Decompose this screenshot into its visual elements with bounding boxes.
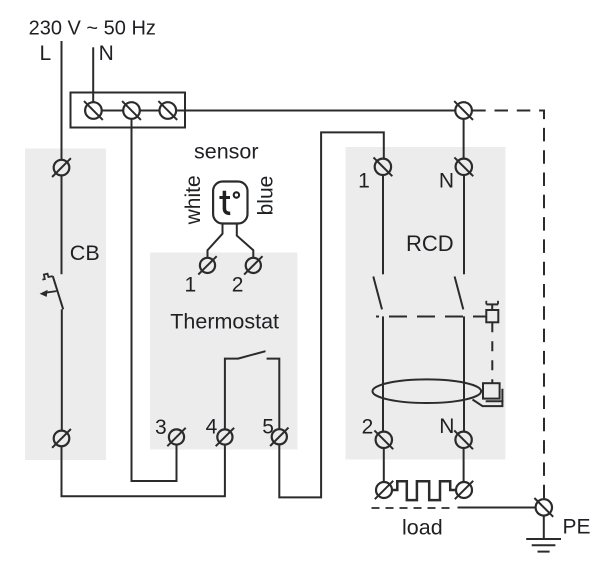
test button body [486, 310, 498, 322]
thermostat switch lever [238, 351, 266, 358]
svg-text:load: load [402, 516, 443, 540]
svg-text:1: 1 [358, 170, 370, 193]
terminal block screw 1 [84, 101, 103, 120]
svg-text:L: L [40, 42, 52, 65]
CB trip arrow [40, 290, 57, 297]
wire L drop [61, 41, 63, 160]
RCD feed terminal [454, 101, 473, 120]
terminal block screw 3 [158, 101, 177, 120]
svg-text:230 V ~ 50 Hz: 230 V ~ 50 Hz [29, 18, 156, 40]
svg-text:N: N [439, 415, 454, 438]
thermostat switch left wire [225, 359, 239, 430]
CB bottom terminal [52, 429, 71, 448]
RCD terminal N bottom [454, 430, 473, 449]
CB latch hook [42, 274, 52, 280]
wire from block to RCD feed [176, 110, 455, 112]
wire N distribution to thermostat terminal 3 [132, 119, 177, 481]
wire CB lower [61, 309, 63, 430]
wire CB to thermostat terminal 4 [62, 445, 225, 497]
svg-text:5: 5 [262, 415, 274, 438]
dashed test wire [491, 322, 493, 383]
sensor terminal 2 [244, 256, 262, 274]
svg-text:CB: CB [70, 241, 100, 265]
thermostat switch right wire [267, 359, 280, 430]
wire chassis to PE [458, 507, 536, 509]
sensor terminal 1 [198, 256, 216, 274]
load chassis dashed line [372, 507, 455, 509]
wire RCD 2 to load [383, 448, 385, 482]
svg-text:2: 2 [362, 416, 374, 439]
svg-text:Thermostat: Thermostat [170, 310, 279, 334]
RCD left pole contact lever [373, 277, 382, 310]
Thermostat module shaded box [150, 253, 298, 450]
terminal block body [71, 93, 186, 128]
svg-text:1: 1 [185, 273, 197, 296]
svg-text:2: 2 [232, 273, 244, 296]
RCD right pole lower wire [463, 316, 465, 431]
load terminal left [375, 481, 393, 499]
thermostat terminal 3 [167, 428, 185, 446]
RCD right pole contact lever [455, 277, 464, 310]
svg-text:sensor: sensor [194, 140, 259, 164]
thermostat terminal 5 [270, 428, 288, 446]
wire toroid to relay [473, 400, 503, 407]
sensor right lead [237, 224, 254, 258]
CB top terminal [52, 158, 71, 177]
RCD left pole lower wire [382, 316, 384, 431]
svg-text:RCD: RCD [406, 231, 454, 256]
svg-text:PE: PE [563, 516, 591, 539]
dashed PE wire top [472, 111, 544, 500]
RCD module shaded box [346, 147, 506, 460]
trip relay body [483, 383, 500, 398]
earth ground symbol [526, 516, 561, 552]
svg-text:N: N [99, 42, 114, 65]
RCD terminal N top [454, 157, 473, 176]
test button actuator [486, 301, 498, 310]
RCD right pole upper wire [463, 175, 465, 274]
CB breaker lever [53, 276, 63, 309]
sensor body [213, 182, 247, 224]
thermostat terminal 4 [216, 428, 234, 446]
trip relay shadow [486, 389, 503, 402]
svg-text:blue: blue [255, 176, 278, 216]
wire bus inside terminal block [102, 110, 124, 112]
load terminal right [455, 481, 473, 499]
RCD left pole upper wire [382, 175, 384, 274]
terminal block screw 2 [122, 101, 141, 120]
wire RCD N to load [463, 448, 465, 482]
svg-text:white: white [182, 175, 205, 225]
wire feed to RCD N [463, 119, 465, 159]
svg-text:N: N [439, 170, 454, 193]
wire N drop [92, 47, 94, 102]
CB module shaded box [25, 149, 106, 461]
RCD terminal 2 [374, 430, 393, 449]
sensor t° mark [219, 191, 239, 214]
PE terminal [534, 498, 553, 517]
svg-text:4: 4 [206, 415, 218, 438]
sense coil toroid [373, 379, 482, 403]
dashed trip linkage [376, 316, 486, 318]
RCD terminal 1 [374, 157, 393, 176]
wire CB upper [61, 175, 63, 274]
wire thermostat 5 to RCD terminal 1 [279, 132, 384, 497]
svg-text:3: 3 [155, 416, 167, 439]
sensor left lead [208, 224, 223, 258]
load heating element [392, 481, 456, 500]
